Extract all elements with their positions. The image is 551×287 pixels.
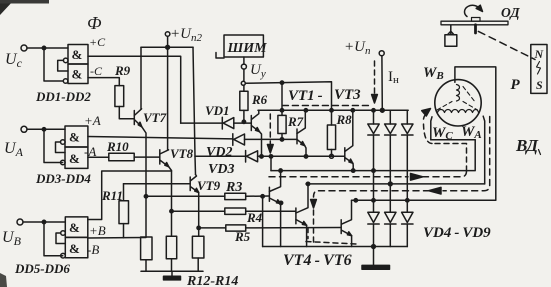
wire Uy line to R7 R8 tops — [245, 82, 331, 125]
wire UB down to DD6 input — [44, 222, 63, 256]
svg-text:VD3: VD3 — [208, 162, 234, 177]
svg-text:S: S — [536, 78, 543, 92]
svg-text:Ф: Ф — [87, 13, 102, 33]
wire rail to VD3 and VT9 — [193, 47, 196, 174]
wire VT1 emitter down — [260, 132, 262, 157]
wire VT9 emitter to R14 column — [198, 193, 200, 237]
OD pivot nub — [472, 18, 481, 22]
svg-text:ВД: ВД — [515, 136, 539, 155]
wire R14 bottom — [197, 258, 199, 271]
wire R5 to VT6 base — [246, 227, 341, 229]
dashed path forward to motor — [269, 176, 408, 178]
diode VD7 — [368, 212, 379, 222]
svg-text:-B: -B — [87, 242, 99, 257]
wire +B up to VT8 emitter column — [88, 171, 172, 220]
wire -A to R10 — [88, 156, 109, 158]
wire +Up2 to rail — [167, 37, 169, 48]
inverter bubble DD1 input — [63, 58, 68, 63]
wire UA to gate DD3 — [27, 128, 65, 130]
bus phase1 y170 — [271, 140, 475, 171]
wire R13 bottom — [171, 259, 173, 272]
node ground junction — [372, 245, 376, 249]
resistor R13 — [166, 236, 176, 258]
svg-text:-C: -C — [90, 64, 103, 78]
resistor R6 — [240, 91, 248, 110]
power terminal +Up — [379, 51, 384, 56]
svg-text:VT4 - VT6: VT4 - VT6 — [283, 252, 352, 269]
node junction UA column — [42, 128, 45, 131]
svg-text:P: P — [511, 77, 521, 93]
resistor R5 — [226, 225, 246, 231]
wire DD3 bubble to DD4 input — [56, 142, 66, 153]
node rail junction — [166, 45, 170, 49]
wire R9 to VT7 base — [119, 107, 134, 119]
transistor VT7 — [133, 111, 135, 125]
wire VT8 emitter to R13 column — [169, 167, 172, 237]
svg-text:VT1 -: VT1 - — [288, 88, 323, 104]
gate DD6 — [65, 237, 88, 257]
sensor magnet body — [531, 45, 547, 94]
node Uy terminal — [241, 64, 246, 69]
node circle above R6 — [241, 81, 245, 85]
resistor R12 — [141, 237, 152, 260]
gate DD3 — [65, 126, 88, 147]
svg-text:&: & — [69, 220, 80, 235]
OD weight hook — [450, 25, 452, 35]
paper corner mark top-left — [0, 0, 14, 15]
transistor VT5 — [295, 208, 297, 224]
wire +Up down to bus1 — [381, 56, 383, 110]
svg-text:VT8: VT8 — [170, 146, 194, 161]
wire Uc to gate DD1 — [27, 47, 68, 49]
wire R3 line — [146, 195, 225, 197]
resistor R11 — [119, 201, 129, 224]
wire R4 line — [172, 210, 225, 212]
node VT2 emitter tee — [304, 155, 307, 158]
wire VT6 emitter down — [351, 236, 353, 247]
power terminal +Up2 — [165, 32, 170, 37]
gate DD4 — [65, 147, 88, 168]
svg-text:R12-R14: R12-R14 — [186, 274, 238, 287]
svg-text:R11: R11 — [101, 188, 123, 203]
motor leg right to bus p2 — [483, 116, 485, 184]
node R6 VD1 junction — [242, 120, 245, 123]
wire VT7 emitter down — [142, 127, 146, 237]
transistor VT6 — [340, 220, 342, 234]
dashed link OD to sensor — [478, 31, 535, 59]
resistor R7 — [278, 115, 286, 133]
motor leg left — [431, 117, 432, 140]
wire -B to R11 bottom and R12 column — [88, 237, 146, 240]
wire R10 to VT8 base — [134, 156, 159, 158]
motor stator circle — [435, 80, 481, 126]
bus phase3 y200 — [352, 67, 496, 200]
svg-text:ОД: ОД — [501, 5, 520, 20]
svg-text:VT9: VT9 — [197, 178, 221, 193]
wire bottom bus — [141, 270, 203, 272]
svg-text:ШИМ: ШИМ — [227, 41, 268, 56]
svg-text:&: & — [72, 67, 83, 82]
dashed path return from motor — [443, 117, 490, 191]
node R3 tee — [144, 195, 147, 198]
inverter bubble DD4 input — [61, 160, 66, 165]
resistor R14 — [192, 236, 204, 258]
svg-text:R6: R6 — [251, 92, 268, 107]
wire R11 top column — [123, 184, 125, 201]
wire +Up2 rail — [141, 46, 193, 48]
resistor R3 — [225, 193, 246, 199]
wire WC loop bottom — [431, 139, 475, 141]
wire rail to VT8 collector — [167, 47, 169, 150]
inverter bubble DD5 input — [61, 231, 66, 236]
wire VD3 to VT3 base — [258, 155, 345, 157]
OD rotation arrow — [465, 5, 480, 16]
svg-text:R4: R4 — [246, 210, 263, 225]
svg-text:VD2: VD2 — [206, 145, 232, 160]
node R4 tee — [170, 210, 173, 213]
wire +C output — [88, 56, 181, 123]
svg-text:VT7: VT7 — [143, 110, 167, 125]
wire VT4 emitter down — [280, 204, 282, 247]
svg-text:&: & — [69, 151, 80, 166]
OD pivot tick — [474, 25, 477, 33]
paper edge smear top — [0, 0, 49, 4]
node R7 bottom junction — [280, 138, 283, 141]
diode VD4 — [373, 110, 375, 124]
input terminal UA — [21, 126, 27, 132]
wire R4 to VT5 base — [246, 210, 296, 212]
diode VD6 — [406, 110, 408, 124]
motor winding arc scallops — [438, 110, 479, 113]
transistor VT1 — [250, 116, 252, 131]
wire R7 bottom — [281, 134, 283, 140]
wire VT4 base bleed to ground — [262, 196, 264, 246]
wire VT3 emitter down — [352, 163, 354, 170]
current arrow In dashed — [374, 61, 376, 96]
diode VD5 — [389, 110, 391, 124]
wire R6 bottom to VD1 line — [243, 85, 245, 122]
bus phase2 y184 — [306, 183, 485, 185]
wire ground bus — [263, 246, 408, 248]
svg-text:DD3-DD4: DD3-DD4 — [35, 171, 91, 186]
motor winding WB coil — [457, 85, 460, 102]
OD beam — [441, 21, 508, 25]
node R7 top tee — [280, 81, 283, 84]
wire ShIM to Uy node — [243, 57, 245, 64]
svg-text:R10: R10 — [106, 139, 129, 154]
transistor VT8 — [159, 150, 161, 164]
svg-text:&: & — [69, 130, 80, 145]
wire UB to gate DD5 — [23, 221, 65, 223]
bus collectors top y110 — [258, 109, 408, 111]
diode VD2 — [232, 134, 234, 146]
wire DD1 bubble to DD2 input — [58, 60, 68, 71]
inverter bubble DD6 input — [61, 253, 66, 258]
wire VT2 emitter down — [305, 146, 306, 157]
ground left — [171, 271, 173, 276]
svg-text:VD4 - VD9: VD4 - VD9 — [423, 225, 491, 241]
inverter bubble DD2 input — [63, 79, 68, 84]
wire R5 line — [199, 227, 226, 229]
wire rail to VT7 collector — [140, 47, 142, 109]
wire DD5 bubble to DD6 input — [56, 233, 65, 244]
wire UA down to DD4 input — [44, 129, 63, 162]
dashed path VT5 emitter to ground — [306, 228, 357, 245]
input terminal UB — [17, 219, 23, 225]
svg-text:&: & — [72, 47, 83, 62]
wire R12 bottom — [145, 260, 147, 272]
resistor R9 — [115, 86, 124, 107]
svg-text:+A: +A — [84, 113, 101, 128]
svg-text:VT3: VT3 — [334, 87, 361, 103]
diode VD8 — [385, 212, 396, 222]
resistor R4 — [225, 208, 246, 214]
diode VD3 — [195, 155, 246, 157]
wire ShIM input stub — [216, 53, 224, 59]
transistor VT2 — [296, 129, 298, 144]
node R8 bottom junction — [330, 154, 334, 158]
svg-text:R5: R5 — [234, 229, 251, 244]
wire link 156 to bus p1 — [270, 156, 272, 170]
wire R3 to VT4 base — [246, 195, 269, 197]
svg-text:N: N — [534, 47, 545, 61]
gate DD1 — [68, 45, 88, 65]
svg-text:R7: R7 — [287, 114, 304, 129]
wire R8 bottom — [331, 150, 333, 157]
svg-text:&: & — [69, 241, 80, 256]
wire R11 bottom to -B line — [123, 224, 125, 238]
node bus1 dots — [280, 109, 283, 112]
node junction Uc column — [42, 46, 45, 49]
svg-text:R9: R9 — [114, 63, 131, 78]
dashed path VT1 down — [269, 114, 271, 146]
svg-text:+B: +B — [89, 223, 106, 238]
transistor VT4 — [268, 187, 270, 201]
svg-text:+C: +C — [89, 35, 106, 49]
svg-text:R8: R8 — [336, 112, 353, 127]
wire +A to VD2 — [88, 137, 233, 139]
wire Uy to node — [243, 69, 245, 81]
wire -C to R9 — [88, 78, 119, 86]
gate DD5 — [65, 217, 88, 238]
gate DD2 — [68, 64, 88, 84]
resistor R10 — [109, 153, 134, 160]
OD weight — [445, 35, 457, 47]
node VT1 emitter tee — [260, 155, 263, 158]
PWM block ShIM — [224, 35, 263, 57]
wire R7 column — [281, 83, 283, 116]
wire R11 line to VT9 base — [124, 183, 191, 185]
node R5 tee — [197, 226, 200, 229]
paper smear bottom-left — [0, 273, 7, 287]
resistor R8 — [327, 125, 335, 150]
svg-text:R3: R3 — [225, 180, 242, 195]
transistor VT3 — [344, 148, 346, 161]
diode VD9 — [402, 212, 413, 222]
inverter bubble DD3 input — [61, 140, 66, 145]
diode VD1 — [181, 122, 223, 124]
motor dashed flux lines — [437, 102, 452, 111]
wire Uc down to DD2 input — [44, 48, 63, 81]
magnet squiggle — [537, 62, 541, 75]
transistor VT9 — [189, 177, 191, 191]
ground main — [373, 247, 375, 266]
input terminal Uc — [21, 45, 27, 51]
svg-text:VD1: VD1 — [205, 103, 230, 118]
dashed underline VT1-VT3 — [282, 105, 372, 107]
wire VT5 emitter down — [306, 225, 308, 246]
svg-text:DD1-DD2: DD1-DD2 — [35, 89, 91, 104]
node junction UB column — [42, 220, 45, 223]
svg-text:DD5-DD6: DD5-DD6 — [14, 261, 70, 276]
